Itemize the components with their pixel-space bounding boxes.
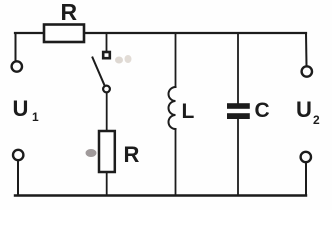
wire bottom bus xyxy=(15,194,306,196)
svg-text:R: R xyxy=(124,142,140,167)
wire R2 to bottom bus xyxy=(106,172,108,196)
wire switch to R2 xyxy=(106,93,108,132)
svg-text:1: 1 xyxy=(32,110,39,124)
switch S1 fixed contact xyxy=(103,52,110,58)
switch S1 pivot xyxy=(103,86,110,93)
svg-text:C: C xyxy=(255,99,270,122)
svg-text:U: U xyxy=(13,96,29,121)
wire capacitor branch bottom xyxy=(237,119,239,196)
smudge artifact near R2 xyxy=(86,149,97,157)
inductor L1 xyxy=(169,87,176,129)
wire inductor branch top xyxy=(175,33,177,87)
wire right rail top xyxy=(305,33,308,66)
smudge artifact near switch xyxy=(115,57,123,64)
resistor R2 (shunt, vertical) xyxy=(99,131,115,172)
wire left rail top xyxy=(15,33,17,60)
svg-text:2: 2 xyxy=(313,113,320,127)
wire capacitor branch top xyxy=(237,33,239,103)
wire inductor branch bottom xyxy=(175,129,177,196)
resistor R1 (series, horizontal) xyxy=(44,25,84,43)
svg-text:L: L xyxy=(182,100,195,123)
terminal circle U1 bottom xyxy=(13,150,23,160)
capacitor C1 plate top xyxy=(227,103,250,109)
capacitor C1 plate bottom xyxy=(227,113,250,119)
terminal circle U2 top xyxy=(302,66,312,76)
wire left rail bottom xyxy=(17,162,19,196)
svg-text:R: R xyxy=(61,0,78,25)
wire right rail bottom xyxy=(305,164,307,196)
svg-text:U: U xyxy=(296,97,312,122)
terminal circle U2 bottom xyxy=(301,152,311,162)
switch S1 blade xyxy=(93,58,105,87)
node switch top junction xyxy=(106,33,108,51)
terminal circle U1 top xyxy=(12,61,22,71)
wire top bus xyxy=(15,32,306,34)
